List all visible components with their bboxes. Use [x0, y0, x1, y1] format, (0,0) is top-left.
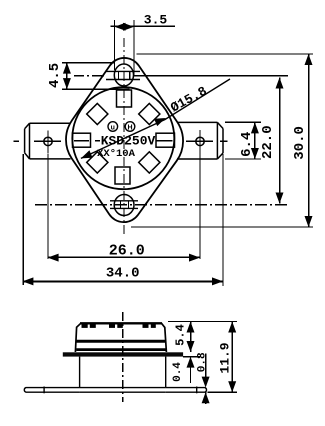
dim 6.4 [225, 122, 261, 159]
svg-text:4.5: 4.5 [47, 63, 63, 88]
left tab hole [34, 131, 61, 154]
right centerline dash-dot [220, 140, 228, 142]
dim 5.4 [187, 322, 195, 353]
extension left hole down [47, 154, 49, 259]
svg-text:3.5: 3.5 [144, 13, 168, 28]
extension left tab down [22, 154, 24, 285]
mark H circle [125, 122, 135, 132]
svg-text:H: H [127, 125, 132, 132]
left tab [25, 123, 71, 159]
svg-text:KSD250V: KSD250V [101, 134, 156, 149]
flange plate [63, 352, 183, 356]
cap seam line upper [76, 340, 166, 343]
centerline dash through W notch [74, 140, 89, 142]
notch S [115, 167, 130, 184]
right tab hole [186, 130, 213, 154]
mark UL circle [108, 122, 118, 132]
body outline (rounded diamond flange) [66, 58, 183, 222]
dim 0.4 [187, 357, 195, 383]
extension right tab down [222, 154, 224, 286]
top hole centerline dash-dot [74, 75, 84, 77]
side view centerline [122, 312, 124, 402]
notch N [117, 90, 132, 107]
centerline dash left of text [95, 140, 100, 142]
dim 4.5 [62, 63, 130, 90]
extension right hole down [199, 154, 201, 259]
notch W [73, 133, 91, 147]
svg-text:11.9: 11.9 [218, 342, 233, 373]
right tab [177, 122, 223, 159]
svg-text:26.0: 26.0 [109, 243, 145, 260]
cap top notches [82, 324, 156, 328]
dim 22.0 [276, 78, 284, 204]
extension flange bottom [183, 356, 200, 358]
dim 11.9 [228, 322, 236, 393]
dim 34.0 [22, 277, 223, 285]
dim 26.0 [48, 254, 200, 262]
svg-text:0.8: 0.8 [197, 352, 209, 372]
cap body [75, 323, 166, 352]
svg-text:6.4: 6.4 [239, 132, 255, 157]
base left edge [79, 357, 81, 388]
notch E [156, 133, 175, 147]
centerline dash right of text [156, 140, 161, 142]
cap top edge [80, 322, 162, 324]
extension cap top [168, 321, 237, 323]
svg-text:5.4: 5.4 [174, 324, 188, 346]
dim 0.8 [202, 354, 210, 405]
notch NW [87, 103, 108, 124]
bottom hole centerline dash-dot [35, 204, 288, 206]
diameter line O15.8 [81, 79, 230, 158]
svg-text:XX°10A: XX°10A [97, 148, 136, 160]
top mounting hole [114, 64, 133, 86]
cap seam line lower [76, 348, 166, 351]
dim 30.0 [131, 54, 313, 227]
vertical centerline [123, 38, 125, 236]
extension terminal bottom [207, 391, 237, 393]
notch NE [139, 103, 160, 124]
bottom mounting hole [114, 195, 134, 216]
terminal strip [24, 387, 206, 394]
svg-text:34.0: 34.0 [106, 266, 140, 282]
bottom hole slot lines [110, 200, 138, 202]
notch SE [139, 152, 160, 173]
centerline dash through E notch [158, 140, 173, 142]
svg-text:22.0: 22.0 [260, 125, 276, 159]
cap rim circle [72, 87, 174, 189]
svg-text:0.4: 0.4 [172, 362, 184, 382]
notch SW [87, 152, 108, 173]
left centerline dash [14, 140, 20, 142]
base right edge [165, 357, 167, 388]
svg-text:30.0: 30.0 [292, 126, 308, 160]
svg-text:u: u [111, 125, 115, 132]
dim 3.5 [111, 20, 176, 75]
top hole slot lines [106, 70, 140, 72]
